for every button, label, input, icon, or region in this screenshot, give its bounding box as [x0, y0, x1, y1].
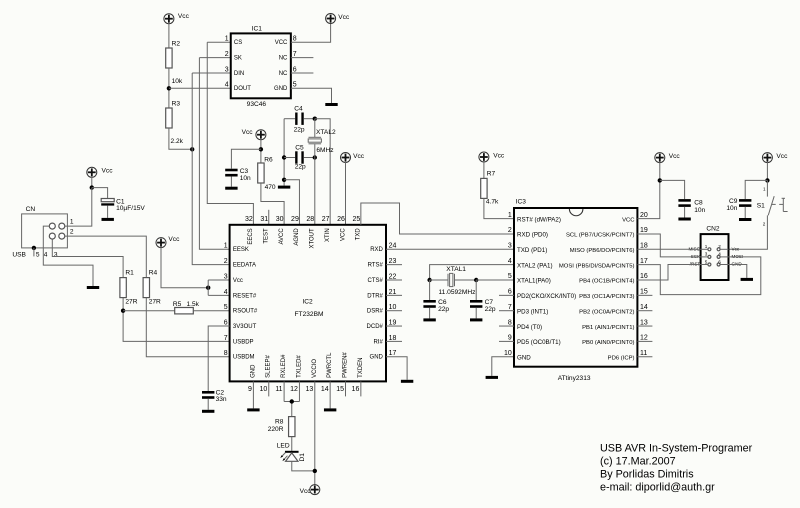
- IC2 box: [230, 225, 386, 382]
- svg-text:PB4 (OC1B/PCINT4): PB4 (OC1B/PCINT4): [579, 279, 634, 285]
- wire 3V3OUT to C2: [208, 326, 229, 391]
- wire junction riser: [207, 280, 209, 295]
- wire CS row: [207, 41, 231, 43]
- svg-text:XTAL2 (PA1): XTAL2 (PA1): [517, 262, 553, 269]
- ground (IC1 GND): [325, 103, 337, 106]
- wire crystal to IC3 pin5 XTAL1: [476, 279, 514, 281]
- svg-text:FT232BM: FT232BM: [295, 311, 324, 318]
- svg-text:e-mail: diporlid@auth.gr: e-mail: diporlid@auth.gr: [600, 482, 715, 494]
- IC2 top pin labels (rotated): [248, 228, 361, 249]
- IC1 pin numbers right: [293, 36, 297, 89]
- svg-text:TEST: TEST: [264, 228, 270, 244]
- wire RXLED#/TXLED# join to R8: [284, 381, 299, 416]
- svg-text:12: 12: [290, 386, 298, 393]
- svg-text:7: 7: [508, 304, 512, 311]
- svg-text:7: 7: [224, 335, 228, 342]
- svg-text:19: 19: [640, 227, 648, 234]
- svg-text:MISO (PB6/DO/PCINT6): MISO (PB6/DO/PCINT6): [570, 248, 635, 254]
- ground (PWRCTL): [324, 408, 336, 411]
- svg-text:1: 1: [70, 218, 74, 225]
- svg-text:VCC: VCC: [340, 228, 346, 241]
- svg-text:PD2(CKO/XCK/INT0): PD2(CKO/XCK/INT0): [517, 293, 576, 300]
- resistor R6: [258, 157, 276, 191]
- svg-text:Vcc: Vcc: [776, 153, 788, 160]
- wire XTOUT to IC2 pin28: [314, 158, 316, 225]
- svg-text:R3: R3: [172, 101, 181, 108]
- svg-text:26: 26: [337, 216, 345, 223]
- svg-text:6: 6: [508, 289, 512, 296]
- IC3 right pin labels: [559, 217, 635, 361]
- wire Vcc to R7: [483, 161, 485, 179]
- IC2 left pin labels: [233, 247, 258, 360]
- capacitor C1 (polarized): [101, 198, 145, 211]
- vcc symbol (IC1 VCC): [326, 14, 350, 24]
- svg-text:29: 29: [291, 216, 299, 223]
- wire IC2 pin14 PWRCTL to ground: [329, 381, 331, 408]
- svg-text:6: 6: [224, 319, 228, 326]
- svg-text:93C46: 93C46: [247, 101, 267, 108]
- IC1 93C46 box: [231, 26, 291, 108]
- svg-text:PWREN#: PWREN#: [343, 352, 349, 378]
- wire R5 to RSOUT# (IC2 pin5): [193, 310, 229, 312]
- svg-text:11: 11: [275, 386, 282, 393]
- capacitor C4: [284, 106, 315, 134]
- svg-text:TXD: TXD: [356, 228, 362, 241]
- svg-text:11.0592MHz: 11.0592MHz: [439, 289, 476, 296]
- svg-text:R7: R7: [487, 170, 496, 177]
- svg-text:By Porlidas Dimitris: By Porlidas Dimitris: [600, 469, 694, 481]
- svg-text:PWRCTL: PWRCTL: [327, 352, 333, 378]
- svg-text:1: 1: [763, 187, 766, 192]
- wire IC2 pin10 SLEEP# stub: [268, 381, 270, 396]
- wire DIN row: [192, 72, 231, 74]
- svg-text:PB1 (AIN1/PCINT1): PB1 (AIN1/PCINT1): [582, 325, 634, 331]
- svg-text:10: 10: [504, 350, 512, 357]
- svg-text:14: 14: [640, 304, 648, 311]
- svg-text:AGND: AGND: [294, 228, 300, 246]
- svg-text:470: 470: [265, 184, 276, 191]
- capacitor C8: [678, 199, 705, 214]
- IC1 pin labels right: [274, 40, 288, 92]
- svg-text:21: 21: [389, 289, 397, 296]
- ground (C3): [225, 187, 237, 190]
- svg-text:XTAL1: XTAL1: [446, 266, 466, 273]
- svg-text:C9: C9: [729, 198, 738, 205]
- svg-text:3: 3: [508, 243, 512, 250]
- svg-text:C7: C7: [485, 299, 494, 306]
- svg-text:RSOUT#: RSOUT#: [233, 309, 258, 315]
- svg-text:ATtiny2313: ATtiny2313: [558, 375, 591, 382]
- svg-text:Vcc: Vcc: [242, 129, 254, 136]
- IC2 bottom pin numbers: [248, 386, 359, 393]
- svg-text:D1: D1: [299, 453, 306, 462]
- wire TXD (IC2 pin25) to IC3 RXD: [361, 203, 514, 234]
- ground (C8): [678, 218, 690, 221]
- svg-text:SK: SK: [234, 56, 242, 62]
- wire junction to C9: [745, 180, 767, 199]
- svg-text:MOSI (PB5/DI/SDA/PCINT5): MOSI (PB5/DI/SDA/PCINT5): [559, 263, 635, 269]
- wire IC1 pin6 NC stub: [291, 72, 314, 74]
- svg-text:18: 18: [640, 243, 648, 250]
- svg-text:1: 1: [225, 36, 229, 43]
- svg-text:Vcc: Vcc: [168, 236, 180, 243]
- CN2 pin numbers: [705, 244, 722, 264]
- IC1 pin labels left: [234, 40, 251, 92]
- svg-text:27R: 27R: [149, 299, 161, 306]
- wire IC2 pin15 PWREN# stub: [345, 381, 347, 396]
- wire IC3 pin4 XTAL2 to crystal left node: [430, 265, 514, 280]
- IC3 left pin labels: [517, 216, 576, 361]
- CN pin circles: [49, 223, 65, 239]
- wire C1 to ground: [107, 206, 109, 218]
- svg-text:R6: R6: [264, 157, 273, 164]
- wire AGND branch to IC2 pin29: [284, 180, 299, 225]
- svg-text:XTAL2: XTAL2: [316, 129, 336, 136]
- CN pin number labels: [12, 218, 74, 258]
- IC3 right pin numbers: [640, 212, 648, 357]
- CN2 pin circles: [708, 248, 720, 266]
- wire C2 to ground: [207, 399, 209, 410]
- svg-text:USBDP: USBDP: [233, 339, 254, 345]
- wire DOUT row to IC1 pin4: [169, 87, 231, 89]
- wire SK row: [199, 57, 230, 59]
- wire Vcc down to node: [766, 162, 768, 181]
- svg-text:PB0 (AIN0/PCINT0): PB0 (AIN0/PCINT0): [582, 340, 634, 346]
- svg-text:IC1: IC1: [252, 26, 263, 33]
- svg-text:PD3 (INT1): PD3 (INT1): [517, 308, 548, 315]
- svg-text:2: 2: [763, 222, 766, 227]
- wire C3 to ground: [230, 176, 232, 186]
- wire IC2 pin16 TXDEN stub: [360, 381, 362, 396]
- svg-text:XTIN: XTIN: [325, 228, 331, 242]
- resistor R2: [166, 41, 183, 86]
- svg-text:10n: 10n: [240, 175, 251, 182]
- svg-text:GND: GND: [517, 354, 531, 361]
- svg-text:R4: R4: [149, 269, 158, 276]
- svg-text:6: 6: [718, 259, 721, 264]
- svg-text:6MHz: 6MHz: [316, 147, 333, 154]
- svg-text:9: 9: [508, 335, 512, 342]
- ground (IC3 GND): [486, 376, 498, 379]
- resistor R3: [166, 101, 184, 146]
- svg-text:IC2: IC2: [302, 298, 313, 305]
- svg-text:33n: 33n: [216, 396, 227, 403]
- vcc symbol (USB VBUS): [87, 167, 113, 177]
- wire VCCIO (IC2 pin13) down to Vcc: [314, 381, 316, 485]
- svg-text:PB2 (OC0A/PCINT2): PB2 (OC0A/PCINT2): [579, 309, 634, 315]
- svg-text:EECS: EECS: [248, 228, 254, 244]
- wire DIN to EEDATA (IC2 pin2): [192, 73, 229, 265]
- svg-text:28: 28: [306, 216, 314, 223]
- svg-text:DIN: DIN: [234, 71, 244, 77]
- IC3 left pin stubs (pins 6-9 open): [499, 295, 514, 341]
- wire CN2 pin6 GND to ground: [729, 265, 747, 278]
- svg-text:3: 3: [224, 273, 228, 280]
- svg-text:3V3OUT: 3V3OUT: [233, 324, 257, 330]
- svg-text:7: 7: [293, 51, 297, 58]
- svg-text:C5: C5: [295, 144, 304, 151]
- wire MISO: IC3 pin18 to CN2 pin1: [637, 248, 700, 250]
- svg-text:2: 2: [718, 244, 721, 249]
- svg-text:C4: C4: [294, 106, 303, 113]
- svg-text:13: 13: [306, 386, 314, 393]
- node R2/DOUT junction: [167, 86, 171, 90]
- wire XTIN to IC2 pin27: [315, 119, 330, 225]
- svg-text:DSR#: DSR#: [367, 309, 384, 315]
- svg-text:4: 4: [224, 289, 228, 296]
- connector CN (USB): [22, 206, 68, 248]
- svg-text:8: 8: [508, 319, 512, 326]
- IC2 bottom pin labels (rotated): [250, 352, 363, 378]
- svg-text:32: 32: [245, 216, 253, 223]
- svg-text:4.7k: 4.7k: [486, 199, 499, 206]
- svg-text:5: 5: [508, 273, 512, 280]
- wire node to C7: [475, 280, 477, 300]
- svg-text:VCCIO: VCCIO: [312, 359, 318, 378]
- CN2 inner stubs: [701, 249, 729, 264]
- svg-text:R5: R5: [173, 301, 182, 308]
- crystal XTAL2 6MHz: [308, 119, 336, 158]
- svg-text:R2: R2: [172, 41, 181, 48]
- connector CN2 box: [701, 225, 729, 280]
- svg-text:NC: NC: [279, 56, 288, 62]
- svg-text:18: 18: [389, 335, 397, 342]
- svg-text:2.2k: 2.2k: [171, 138, 184, 145]
- ground (IC2 GND9): [247, 408, 259, 411]
- wire IC3 pin20 VCC up to Vcc: [637, 162, 659, 219]
- svg-text:CTS#: CTS#: [368, 278, 384, 284]
- svg-text:4: 4: [508, 258, 512, 265]
- wire C8 to ground: [684, 207, 686, 218]
- capacitor C3: [225, 168, 251, 182]
- node A junction Vcc/C1/CN pin1: [90, 185, 94, 189]
- wire R1 bottom to USBDP (IC2 pin7): [123, 298, 230, 342]
- svg-text:VCC: VCC: [622, 217, 635, 223]
- svg-text:PD6 (ICP): PD6 (ICP): [608, 355, 635, 361]
- wire R3 bottom to DIN node: [169, 128, 192, 149]
- wire R8 to LED: [291, 437, 293, 451]
- wire C7 to ground: [475, 308, 477, 319]
- capacitor C9: [726, 198, 751, 212]
- wire node A to C1: [92, 188, 108, 199]
- svg-text:15: 15: [336, 386, 344, 393]
- svg-text:RXD (PD0): RXD (PD0): [517, 232, 548, 239]
- wire R7 to IC3 pin1 RST#: [484, 198, 514, 218]
- svg-text:10n: 10n: [726, 205, 737, 212]
- wire IC2 pin9 GND down: [252, 381, 254, 408]
- svg-text:25: 25: [352, 216, 360, 223]
- capacitor C2: [202, 390, 227, 403]
- svg-text:RI#: RI#: [374, 339, 384, 345]
- svg-text:2: 2: [225, 51, 229, 58]
- node AGND branch junction: [282, 178, 286, 182]
- node LED junction: [290, 399, 294, 403]
- wire RXD (IC2 pin24) to IC3 TXD: [386, 248, 514, 250]
- title text block: [600, 443, 753, 494]
- svg-text:20: 20: [640, 212, 648, 219]
- svg-text:27R: 27R: [125, 299, 137, 306]
- svg-text:1: 1: [508, 212, 512, 219]
- node Vcc/C3/R6 junction: [259, 147, 263, 151]
- ground (osc rail): [278, 186, 290, 189]
- svg-text:NC: NC: [279, 71, 288, 77]
- IC3 right pin stubs (pins 11-15 open): [637, 295, 652, 356]
- svg-text:RXD: RXD: [370, 247, 383, 253]
- svg-text:VCC: VCC: [275, 40, 288, 46]
- svg-text:Vcc: Vcc: [669, 153, 681, 160]
- vcc symbol (IC3 VCC): [655, 153, 681, 163]
- svg-text:SLEEP#: SLEEP#: [266, 355, 272, 378]
- svg-text:5: 5: [705, 259, 708, 264]
- svg-text:6: 6: [293, 66, 297, 73]
- IC2 left pin numbers: [224, 243, 228, 357]
- wire CN pin2 to R4: [65, 236, 146, 278]
- svg-text:Vcc: Vcc: [732, 246, 740, 251]
- svg-text:14: 14: [321, 386, 329, 393]
- svg-text:24: 24: [389, 243, 397, 250]
- svg-text:22: 22: [389, 273, 397, 280]
- svg-text:12: 12: [640, 335, 648, 342]
- wire IC2 right stubs pins 23-18: [386, 265, 402, 342]
- svg-text:31: 31: [260, 216, 268, 223]
- svg-text:DTR#: DTR#: [367, 293, 383, 299]
- svg-text:Vcc: Vcc: [178, 13, 190, 20]
- svg-text:2: 2: [508, 227, 512, 234]
- svg-text:EESK: EESK: [233, 247, 249, 253]
- svg-text:S1: S1: [757, 203, 765, 210]
- svg-text:TXDEN: TXDEN: [358, 358, 364, 378]
- vcc symbol (VCCIO): [300, 485, 320, 495]
- node R1/R5 junction: [121, 309, 125, 313]
- svg-text:3: 3: [705, 252, 708, 257]
- svg-text:CN: CN: [26, 206, 36, 213]
- IC3 ATtiny2313 box: [514, 199, 637, 382]
- resistor R8: [268, 417, 295, 437]
- IC1 pin numbers left: [225, 36, 229, 89]
- svg-text:4: 4: [225, 82, 229, 89]
- svg-text:SCL (PB7/UCSK/PCINT7): SCL (PB7/UCSK/PCINT7): [566, 233, 635, 239]
- wire junction to C3: [231, 149, 261, 168]
- svg-text:USBDM: USBDM: [233, 355, 255, 361]
- wire /RST: IC3 pin16 PB4 to CN2 pin5: [637, 265, 700, 281]
- switch S1: [757, 180, 788, 226]
- vcc symbol (AVCC filter): [242, 129, 266, 140]
- node Vcc/RESET junction: [206, 286, 210, 290]
- svg-text:4: 4: [718, 252, 721, 257]
- svg-text:USB AVR In-System-Programer: USB AVR In-System-Programer: [600, 443, 753, 455]
- svg-text:10µF/15V: 10µF/15V: [116, 205, 145, 212]
- svg-text:Vcc: Vcc: [102, 168, 114, 175]
- svg-text:USB: USB: [12, 252, 26, 259]
- svg-text:PD5 (OC0B/T1): PD5 (OC0B/T1): [517, 339, 561, 346]
- svg-text:23: 23: [389, 258, 397, 265]
- wire LED to VCCIO rail: [292, 461, 315, 471]
- svg-text:10: 10: [389, 304, 397, 311]
- svg-text:CS: CS: [234, 40, 242, 46]
- resistor R7: [481, 170, 499, 205]
- svg-text:8: 8: [293, 36, 297, 43]
- IC2 top pin numbers: [245, 216, 360, 223]
- svg-text:8: 8: [224, 350, 228, 357]
- svg-text:10k: 10k: [172, 78, 183, 85]
- svg-text:C3: C3: [240, 168, 249, 175]
- svg-text:LED: LED: [277, 443, 290, 450]
- CN2 pin labels: [688, 246, 743, 266]
- svg-text:10n: 10n: [694, 207, 705, 214]
- IC2 right pin numbers: [389, 243, 397, 357]
- svg-text:AVCC: AVCC: [279, 228, 285, 245]
- svg-text:15: 15: [640, 289, 648, 296]
- node XTAL1 left junction: [427, 278, 431, 282]
- svg-text:220R: 220R: [268, 426, 284, 433]
- svg-text:22p: 22p: [294, 127, 305, 134]
- svg-text:GND: GND: [274, 86, 288, 92]
- svg-text:1.5k: 1.5k: [187, 301, 200, 308]
- wire node to C6: [429, 280, 431, 300]
- svg-text:PD4 (T0): PD4 (T0): [517, 324, 542, 331]
- capacitor C7: [470, 299, 496, 313]
- node R3/DIN junction: [190, 147, 194, 151]
- svg-text:Vcc: Vcc: [493, 152, 505, 159]
- svg-text:RST# (dW/PA2): RST# (dW/PA2): [517, 216, 561, 223]
- wire Vcc to R6: [260, 139, 262, 163]
- svg-text:3: 3: [54, 251, 58, 258]
- svg-text:IC3: IC3: [516, 199, 527, 206]
- svg-text:17: 17: [640, 258, 648, 265]
- vcc symbol (S1/C9): [762, 153, 788, 163]
- ground (C6): [423, 318, 435, 321]
- svg-text:10: 10: [259, 386, 267, 393]
- svg-text:27: 27: [322, 216, 330, 223]
- svg-text:RESET#: RESET#: [233, 293, 257, 299]
- wire IC1 pin7 NC stub: [291, 57, 314, 59]
- IC2 right pin labels: [367, 247, 384, 360]
- svg-text:22p: 22p: [485, 306, 496, 313]
- wire TEST stub (IC2 pin31): [268, 210, 270, 225]
- svg-text:30: 30: [276, 216, 284, 223]
- svg-text:17: 17: [389, 350, 397, 357]
- svg-text:2: 2: [70, 228, 74, 235]
- svg-text:1: 1: [224, 243, 228, 250]
- wire SCK: IC3 pin19 SCL to CN2 pin3: [637, 234, 700, 257]
- node CN pin5 shield: [32, 246, 36, 250]
- vcc symbol (IC2 pin26 VCC): [341, 153, 365, 163]
- wire C9 to ground: [744, 207, 746, 218]
- svg-text:22p: 22p: [438, 306, 449, 313]
- LED D1: [277, 443, 306, 462]
- ground (C2): [202, 410, 214, 413]
- node C5/XTAL2 junction: [313, 155, 317, 159]
- svg-text:TXD (PD1): TXD (PD1): [517, 247, 547, 254]
- vcc symbol (R7 top): [479, 152, 505, 162]
- svg-text:3: 3: [225, 66, 229, 73]
- wire Vcc to IC2 pins 3/4: [161, 246, 208, 287]
- wire CN pin4 to ground: [43, 226, 93, 286]
- svg-text:5: 5: [36, 251, 40, 258]
- node C4/XTAL2/XTIN junction: [313, 117, 317, 121]
- svg-text:19: 19: [389, 319, 397, 326]
- wire IC1 pin8 VCC to Vcc: [291, 22, 331, 42]
- svg-text:GND: GND: [370, 355, 384, 361]
- resistor R5: [173, 301, 200, 314]
- svg-text:EEDATA: EEDATA: [233, 263, 256, 269]
- svg-text:R8: R8: [275, 418, 284, 425]
- svg-text:16: 16: [640, 273, 648, 280]
- wire CN pin1 to Vcc node A: [65, 188, 92, 227]
- wire to IC2 pin4 RESET#: [208, 294, 229, 296]
- wire S1 bottom to CN2 Vcc pin: [729, 215, 768, 249]
- wire CN pin3 to R1: [52, 239, 123, 277]
